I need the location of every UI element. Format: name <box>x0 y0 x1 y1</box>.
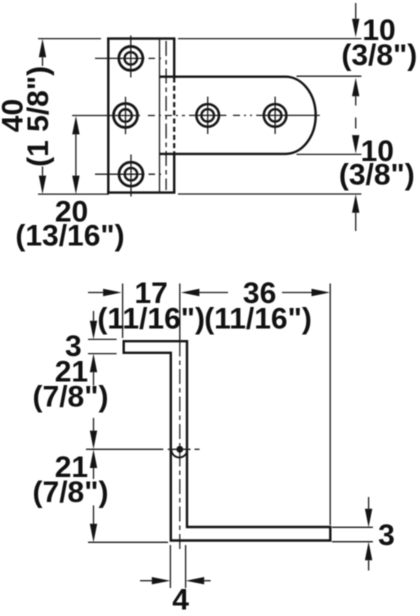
svg-text:(13/16"): (13/16") <box>15 220 124 253</box>
svg-text:3: 3 <box>378 519 395 552</box>
svg-text:(11/16"): (11/16") <box>97 303 205 336</box>
svg-text:(7/8"): (7/8") <box>33 476 109 509</box>
svg-text:(1 5/8"): (1 5/8") <box>22 66 55 167</box>
svg-text:(11/16"): (11/16") <box>204 303 312 336</box>
svg-text:(3/8"): (3/8") <box>339 158 415 191</box>
svg-text:(7/8"): (7/8") <box>33 381 109 414</box>
svg-text:4: 4 <box>172 583 189 616</box>
svg-text:(3/8"): (3/8") <box>341 39 417 72</box>
